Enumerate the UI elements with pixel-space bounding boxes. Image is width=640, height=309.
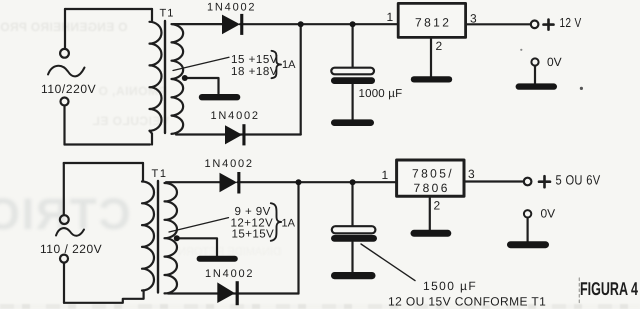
svg-text:7812: 7812 <box>415 15 451 29</box>
svg-text:1500 µF: 1500 µF <box>423 279 477 293</box>
svg-text:3: 3 <box>468 167 475 181</box>
svg-text:2: 2 <box>434 198 441 212</box>
svg-text:12 V: 12 V <box>560 15 582 30</box>
svg-text:15+15V: 15+15V <box>232 227 275 240</box>
svg-text:FIGURA 4: FIGURA 4 <box>580 278 638 299</box>
svg-text:1A: 1A <box>282 59 296 71</box>
svg-text:1: 1 <box>387 10 394 24</box>
svg-text:12 OU 15V CONFORME T1: 12 OU 15V CONFORME T1 <box>388 294 546 308</box>
svg-text:T1: T1 <box>152 168 168 180</box>
svg-text:1N4002: 1N4002 <box>205 268 254 280</box>
svg-text:1N4002: 1N4002 <box>207 2 256 14</box>
svg-text:1N4002: 1N4002 <box>211 110 260 122</box>
svg-text:5 OU 6V: 5 OU 6V <box>556 173 601 188</box>
svg-text:1A: 1A <box>282 218 296 230</box>
svg-text:1: 1 <box>382 168 389 182</box>
svg-text:3: 3 <box>470 11 477 25</box>
svg-text:1000 µF: 1000 µF <box>359 88 403 100</box>
svg-text:7805/: 7805/ <box>412 166 454 180</box>
svg-text:110/220V: 110/220V <box>41 82 96 96</box>
svg-text:110 / 220V: 110 / 220V <box>40 242 102 256</box>
svg-text:1N4002: 1N4002 <box>205 158 254 170</box>
svg-text:2: 2 <box>436 39 443 53</box>
svg-text:T1: T1 <box>160 8 175 20</box>
svg-text:0V: 0V <box>547 55 562 69</box>
svg-text:0V: 0V <box>541 207 556 221</box>
svg-text:18 +18V: 18 +18V <box>231 65 278 78</box>
svg-text:7806: 7806 <box>414 181 450 195</box>
